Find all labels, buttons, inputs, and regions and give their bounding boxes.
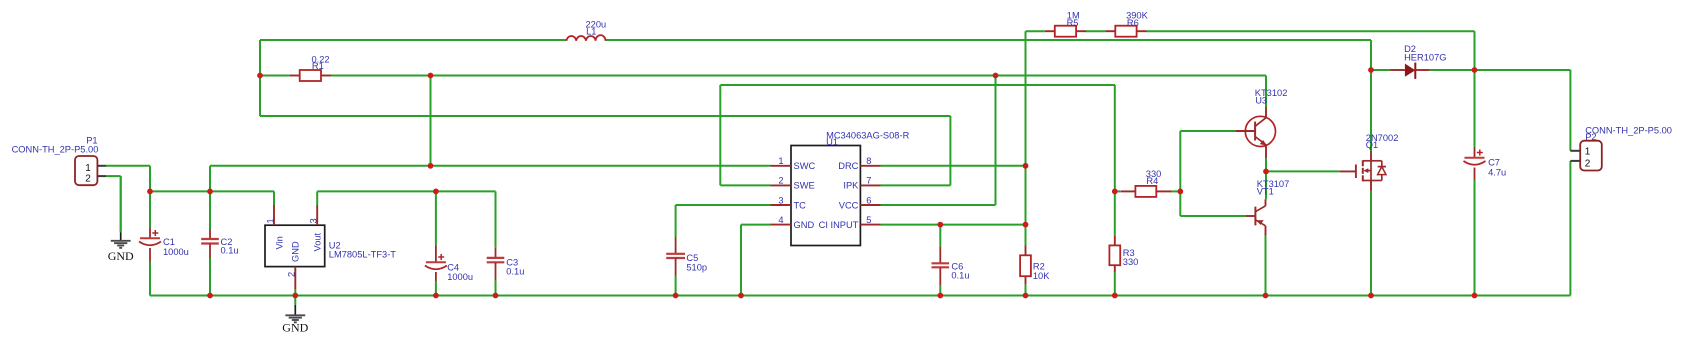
svg-text:R5: R5 (1067, 18, 1079, 28)
svg-text:5: 5 (866, 215, 871, 225)
svg-text:GND: GND (282, 321, 308, 335)
svg-text:C1: C1 (163, 237, 175, 247)
svg-text:0.1u: 0.1u (221, 246, 239, 256)
svg-text:7: 7 (866, 176, 871, 186)
svg-text:2: 2 (778, 176, 783, 186)
svg-text:DRC: DRC (838, 161, 858, 171)
svg-text:GND: GND (794, 220, 815, 230)
svg-text:CI INPUT: CI INPUT (819, 220, 859, 230)
svg-text:GND: GND (108, 249, 134, 263)
svg-text:3: 3 (309, 218, 319, 223)
svg-text:MC34063AG-S08-R: MC34063AG-S08-R (826, 131, 909, 141)
svg-text:U1: U1 (826, 137, 838, 147)
svg-text:R1: R1 (312, 61, 324, 71)
svg-text:1000u: 1000u (447, 272, 473, 282)
svg-text:L1: L1 (586, 26, 596, 36)
svg-text:10K: 10K (1033, 271, 1050, 281)
svg-text:C7: C7 (1488, 158, 1500, 168)
svg-text:0.1u: 0.1u (506, 267, 524, 277)
svg-text:1000u: 1000u (163, 247, 189, 257)
svg-text:Q1: Q1 (1366, 140, 1378, 150)
svg-text:CONN-TH_2P-P5.00: CONN-TH_2P-P5.00 (1585, 126, 1672, 136)
svg-text:3: 3 (778, 195, 783, 205)
svg-text:4: 4 (778, 215, 783, 225)
svg-text:TC: TC (794, 200, 807, 210)
svg-text:VCC: VCC (839, 200, 859, 210)
svg-text:CONN-TH_2P-P5.00: CONN-TH_2P-P5.00 (12, 144, 99, 154)
svg-text:IPK: IPK (843, 181, 859, 191)
svg-text:VT1: VT1 (1257, 187, 1274, 197)
svg-text:0.1u: 0.1u (951, 270, 969, 280)
svg-text:LM7805L-TF3-T: LM7805L-TF3-T (329, 250, 396, 260)
svg-text:R2: R2 (1033, 262, 1045, 272)
svg-text:P2: P2 (1585, 132, 1596, 142)
svg-text:510p: 510p (686, 263, 707, 273)
svg-text:R6: R6 (1127, 18, 1139, 28)
svg-text:SWC: SWC (794, 161, 816, 171)
svg-text:1: 1 (265, 218, 275, 223)
svg-text:2: 2 (286, 272, 296, 277)
svg-text:1: 1 (1585, 146, 1591, 157)
svg-text:2: 2 (85, 173, 91, 184)
svg-text:8: 8 (866, 156, 871, 166)
svg-text:4.7u: 4.7u (1488, 168, 1506, 178)
svg-text:1: 1 (778, 156, 783, 166)
svg-text:2: 2 (1585, 158, 1591, 169)
svg-text:GND: GND (291, 241, 301, 262)
svg-text:U3: U3 (1255, 95, 1267, 105)
svg-text:SWE: SWE (794, 181, 815, 191)
svg-text:6: 6 (866, 195, 871, 205)
svg-text:Vout: Vout (313, 232, 323, 251)
svg-text:HER107G: HER107G (1404, 52, 1446, 62)
svg-text:330: 330 (1123, 257, 1139, 267)
svg-text:R4: R4 (1146, 176, 1158, 186)
svg-text:Vin: Vin (275, 236, 285, 249)
